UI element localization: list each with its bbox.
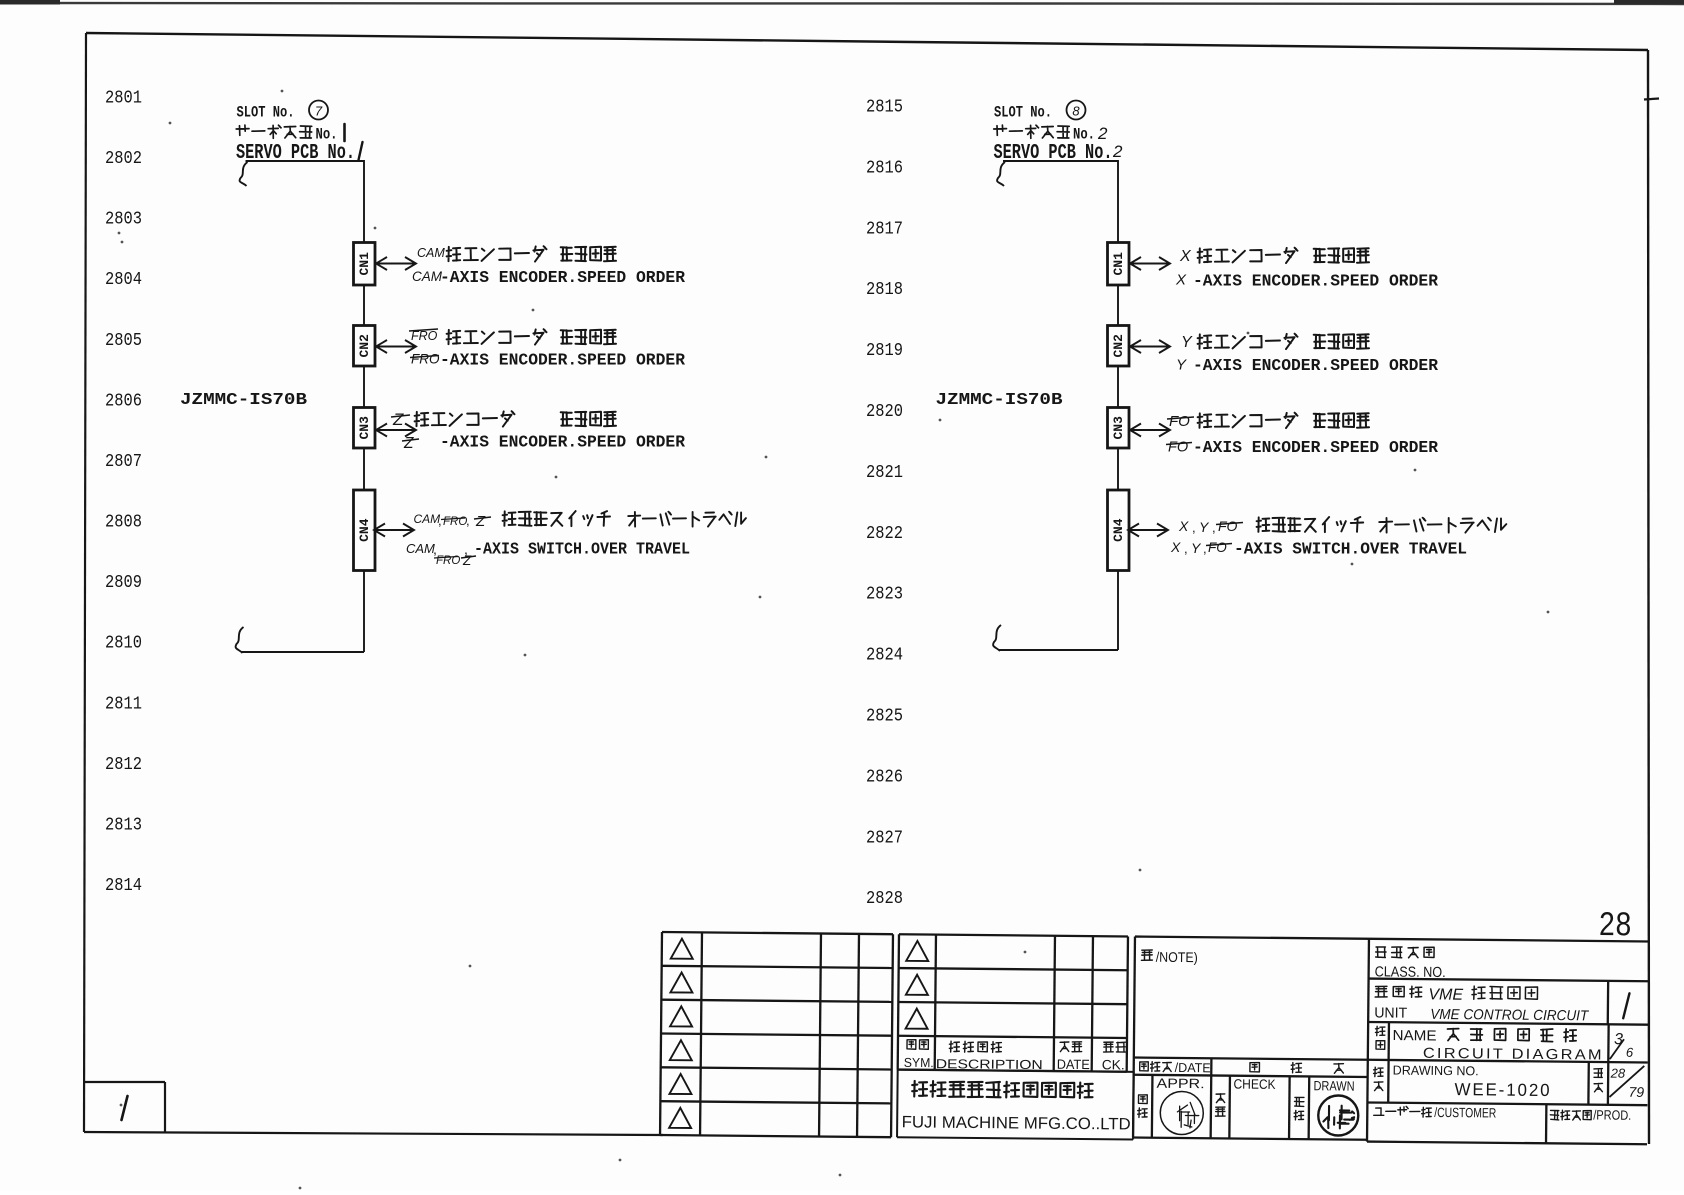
- svg-text:FUJI MACHINE MFG.CO..LTD: FUJI MACHINE MFG.CO..LTD: [902, 1113, 1131, 1133]
- svg-text:2802: 2802: [105, 149, 142, 169]
- svg-text:DATE: DATE: [1057, 1057, 1090, 1072]
- svg-text:-AXIS ENCODER.SPEED ORDER: -AXIS ENCODER.SPEED ORDER: [1193, 438, 1438, 457]
- svg-text:CN2: CN2: [357, 334, 372, 358]
- svg-text:WEE-1020: WEE-1020: [1454, 1079, 1551, 1100]
- svg-text:6: 6: [1626, 1045, 1634, 1060]
- svg-text:,: ,: [1184, 541, 1188, 556]
- svg-text:2819: 2819: [866, 341, 903, 361]
- svg-text:,: ,: [438, 513, 442, 528]
- svg-text:FO: FO: [1168, 440, 1188, 456]
- svg-text:CAM: CAM: [414, 512, 441, 526]
- svg-text:SLOT No.: SLOT No.: [237, 104, 295, 122]
- svg-text:-AXIS SWITCH.OVER TRAVEL: -AXIS SWITCH.OVER TRAVEL: [1234, 540, 1467, 559]
- svg-text:CN4: CN4: [1111, 518, 1126, 542]
- svg-text:2805: 2805: [105, 331, 142, 351]
- svg-text:28: 28: [1599, 905, 1632, 942]
- svg-text:CN2: CN2: [1111, 334, 1126, 358]
- svg-text:DESCRIPTION: DESCRIPTION: [936, 1056, 1043, 1072]
- svg-text:/DATE: /DATE: [1175, 1060, 1211, 1075]
- svg-text:28: 28: [1610, 1066, 1626, 1081]
- svg-text:2806: 2806: [105, 391, 142, 411]
- svg-text:X: X: [1179, 248, 1192, 265]
- svg-text:2814: 2814: [105, 876, 142, 896]
- svg-text:JZMMC-IS70B: JZMMC-IS70B: [180, 391, 307, 410]
- svg-text:2825: 2825: [866, 707, 903, 727]
- svg-text:2823: 2823: [866, 585, 903, 605]
- svg-text:X: X: [1175, 272, 1187, 289]
- svg-text:2816: 2816: [866, 158, 903, 178]
- svg-text:CN1: CN1: [1111, 252, 1126, 276]
- svg-text:SYM.: SYM.: [904, 1055, 934, 1070]
- svg-text:2804: 2804: [105, 270, 142, 290]
- svg-text:2815: 2815: [866, 98, 903, 118]
- svg-text:FO: FO: [1169, 413, 1190, 430]
- svg-text:/PROD.: /PROD.: [1593, 1107, 1631, 1122]
- svg-text:Z: Z: [475, 513, 486, 530]
- svg-text:79: 79: [1628, 1084, 1644, 1100]
- svg-text:VME: VME: [1428, 986, 1463, 1003]
- svg-text:2807: 2807: [105, 452, 142, 472]
- svg-text:-AXIS ENCODER.SPEED ORDER: -AXIS ENCODER.SPEED ORDER: [440, 268, 685, 287]
- svg-text:2801: 2801: [105, 89, 142, 109]
- svg-text:2: 2: [1112, 142, 1123, 161]
- svg-text:2824: 2824: [866, 646, 903, 666]
- svg-text:2820: 2820: [866, 402, 903, 422]
- svg-text:,: ,: [1203, 541, 1207, 556]
- svg-text:2: 2: [1097, 124, 1108, 143]
- svg-text:2818: 2818: [866, 280, 903, 300]
- svg-text:-AXIS ENCODER.SPEED ORDER: -AXIS ENCODER.SPEED ORDER: [1193, 272, 1438, 291]
- svg-text:2821: 2821: [866, 463, 903, 483]
- svg-text:7: 7: [315, 104, 323, 119]
- svg-text:2828: 2828: [866, 889, 903, 909]
- svg-text:2803: 2803: [105, 210, 142, 230]
- svg-text:2812: 2812: [105, 755, 142, 775]
- svg-text:FRO: FRO: [411, 352, 440, 367]
- svg-text:CLASS. NO.: CLASS. NO.: [1375, 964, 1446, 981]
- svg-text:-AXIS ENCODER.SPEED ORDER: -AXIS ENCODER.SPEED ORDER: [440, 433, 685, 452]
- svg-text:Y: Y: [1181, 334, 1193, 351]
- svg-text:2810: 2810: [105, 634, 142, 654]
- svg-text:2827: 2827: [866, 828, 903, 848]
- svg-text:CN3: CN3: [1111, 416, 1126, 440]
- svg-text:DRAWING NO.: DRAWING NO.: [1393, 1063, 1479, 1079]
- svg-text:2811: 2811: [105, 694, 142, 714]
- svg-text:-AXIS ENCODER.SPEED ORDER: -AXIS ENCODER.SPEED ORDER: [1193, 356, 1438, 375]
- svg-text:SLOT No.: SLOT No.: [994, 104, 1052, 122]
- svg-text:CAM: CAM: [406, 541, 435, 556]
- svg-text:CHECK: CHECK: [1233, 1076, 1275, 1091]
- svg-text:Z: Z: [392, 410, 404, 429]
- svg-text:-AXIS SWITCH.OVER TRAVEL: -AXIS SWITCH.OVER TRAVEL: [474, 540, 690, 559]
- svg-text:NAME: NAME: [1392, 1028, 1436, 1044]
- svg-text:/CUSTOMER: /CUSTOMER: [1434, 1105, 1496, 1121]
- svg-text:X: X: [1178, 518, 1189, 534]
- svg-text:-AXIS ENCODER.SPEED ORDER: -AXIS ENCODER.SPEED ORDER: [440, 351, 685, 370]
- svg-text:CN3: CN3: [357, 416, 372, 440]
- svg-text:DRAWN: DRAWN: [1313, 1078, 1354, 1093]
- svg-text:2808: 2808: [105, 513, 142, 533]
- svg-text:Z: Z: [403, 435, 414, 452]
- svg-text:Z: Z: [462, 553, 472, 568]
- svg-text:FO: FO: [1208, 540, 1227, 555]
- svg-text:CAM: CAM: [412, 269, 443, 284]
- svg-text:2822: 2822: [866, 524, 903, 544]
- svg-text:/NOTE): /NOTE): [1156, 949, 1198, 965]
- svg-text:,: ,: [466, 513, 470, 528]
- svg-text:2817: 2817: [866, 219, 903, 239]
- svg-text:UNIT: UNIT: [1374, 1005, 1407, 1021]
- svg-text:CN1: CN1: [357, 252, 372, 276]
- svg-text:VME CONTROL CIRCUIT: VME CONTROL CIRCUIT: [1430, 1007, 1589, 1025]
- svg-text:No.: No.: [1073, 126, 1095, 144]
- svg-text:JZMMC-IS70B: JZMMC-IS70B: [936, 391, 1063, 410]
- svg-text:2809: 2809: [105, 573, 142, 593]
- svg-text:2813: 2813: [105, 816, 142, 836]
- svg-text:CN4: CN4: [357, 518, 372, 542]
- svg-text:CIRCUIT DIAGRAM: CIRCUIT DIAGRAM: [1423, 1046, 1604, 1064]
- svg-text:,: ,: [1212, 520, 1216, 535]
- svg-text:No.: No.: [316, 126, 338, 144]
- svg-text:X: X: [1170, 539, 1181, 555]
- svg-text:APPR.: APPR.: [1156, 1076, 1204, 1091]
- svg-text:2826: 2826: [866, 767, 903, 787]
- svg-text:8: 8: [1072, 104, 1080, 119]
- svg-text:,: ,: [1192, 520, 1196, 535]
- svg-text:Y: Y: [1176, 357, 1187, 374]
- svg-text:CK.: CK.: [1102, 1057, 1125, 1072]
- svg-text:FO: FO: [1218, 518, 1238, 534]
- svg-text:CAM: CAM: [417, 246, 445, 260]
